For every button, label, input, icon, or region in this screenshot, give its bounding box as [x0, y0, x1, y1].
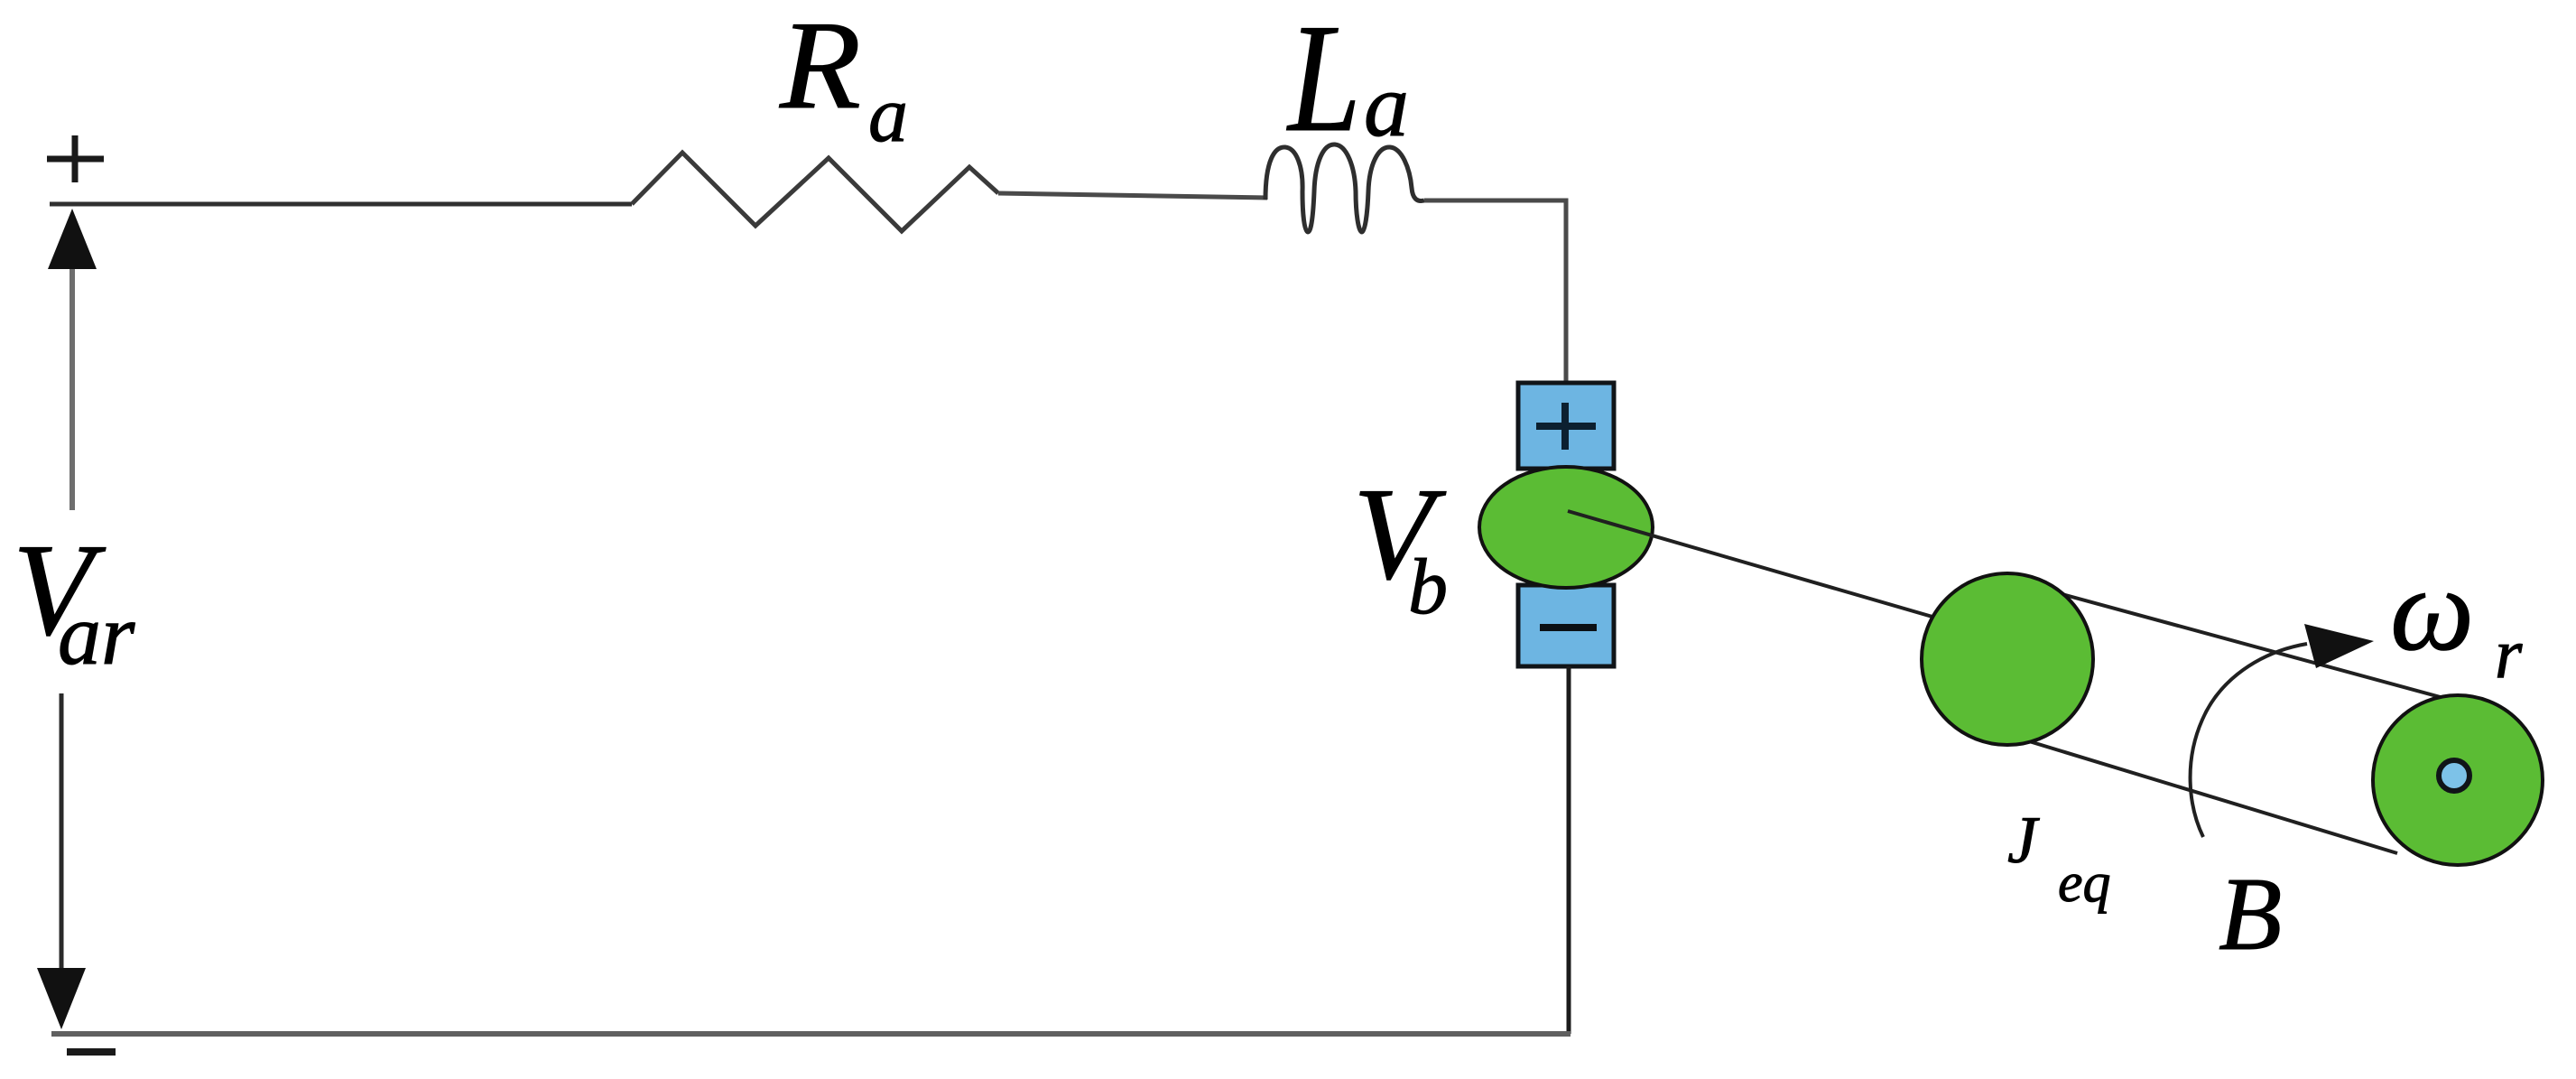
- motor minus terminal box: [1518, 585, 1614, 666]
- wire top horizontal left segment: [50, 202, 632, 207]
- Var arrowhead down: [37, 968, 86, 1029]
- svg-text:B: B: [2219, 857, 2282, 972]
- back-EMF source Vb ellipse (motor body): [1479, 467, 1653, 588]
- svg-text:eq: eq: [2058, 852, 2111, 914]
- wire between resistor and inductor: [998, 193, 1267, 198]
- shaft end cap circle: [2373, 695, 2543, 865]
- plus sign inside terminal: [1536, 403, 1596, 450]
- Var arrowhead up: [48, 209, 97, 269]
- flywheel disk Jeq: [1922, 573, 2093, 745]
- minus sign inside terminal: [1540, 624, 1597, 631]
- rotation arrowhead: [2304, 624, 2374, 668]
- bottom return wire: [51, 1031, 1571, 1037]
- Var arrow upper segment: [69, 269, 75, 510]
- resistor Ra zigzag: [632, 153, 998, 231]
- svg-text:ar: ar: [58, 586, 135, 683]
- cylinder top silhouette line: [2035, 587, 2467, 704]
- cylinder bottom silhouette line: [2017, 738, 2397, 853]
- shaft line motor to flywheel: [1568, 511, 1954, 623]
- shaft end center dot: [2439, 760, 2469, 791]
- wire inductor to top-right corner and down: [1424, 200, 1566, 386]
- Var arrow lower segment: [60, 693, 64, 968]
- motor plus terminal box: [1518, 383, 1614, 469]
- minus polarity mark bottom-left: [67, 1048, 116, 1056]
- plus polarity mark top-left: [47, 135, 104, 182]
- svg-text:J: J: [2007, 804, 2040, 878]
- svg-text:R: R: [779, 0, 861, 135]
- inductor La loops: [1265, 144, 1424, 232]
- wire motor to bottom-right corner: [1567, 666, 1571, 1034]
- svg-text:a: a: [1364, 55, 1409, 155]
- svg-text:L: L: [1286, 0, 1361, 164]
- svg-text:ω: ω: [2390, 543, 2474, 675]
- svg-text:b: b: [1408, 544, 1448, 631]
- rotation arc: [2191, 644, 2307, 837]
- svg-text:a: a: [868, 71, 908, 159]
- svg-text:r: r: [2495, 614, 2523, 693]
